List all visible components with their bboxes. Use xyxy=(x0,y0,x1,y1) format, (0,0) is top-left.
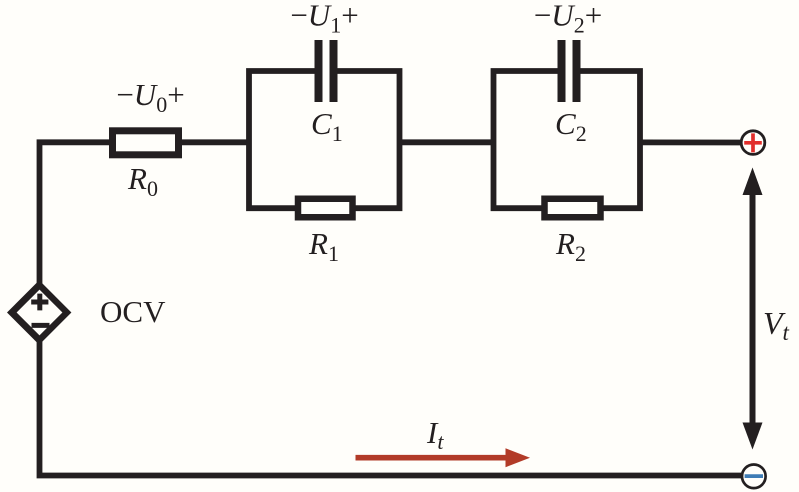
resistor R0 xyxy=(113,131,179,155)
wire: RC group 2 to positive terminal xyxy=(640,139,742,145)
wire: RC group 1 to RC group 2 xyxy=(400,139,495,145)
svg-text:R0: R0 xyxy=(127,161,158,201)
svg-text:−U2+: −U2+ xyxy=(534,0,602,38)
svg-text:Vt: Vt xyxy=(763,305,790,345)
RC group 1 frame (parallel R1 C1 loop) xyxy=(249,71,400,208)
resistor R2 xyxy=(545,199,601,218)
negative terminal (blue minus in circle) xyxy=(742,465,766,489)
voltage source OCV (diamond) xyxy=(7,280,71,344)
minus sign inside OCV xyxy=(32,323,50,328)
capacitor C2 plates xyxy=(558,40,566,102)
plus sign inside OCV xyxy=(31,294,48,311)
svg-text:It: It xyxy=(426,415,444,454)
wire: R0 to first RC group xyxy=(182,139,251,145)
capacitor C1 plates xyxy=(315,40,323,102)
svg-text:C2: C2 xyxy=(555,106,587,146)
svg-text:R1: R1 xyxy=(308,226,339,266)
svg-text:−U1+: −U1+ xyxy=(290,0,358,38)
svg-text:OCV: OCV xyxy=(100,294,166,329)
svg-text:−U0+: −U0+ xyxy=(116,77,184,117)
svg-text:R2: R2 xyxy=(555,226,586,266)
current arrow It (red) xyxy=(356,455,508,461)
RC group 2 frame (parallel R2 C2 loop) xyxy=(494,71,641,208)
positive terminal (red plus in circle) xyxy=(741,131,765,155)
svg-text:C1: C1 xyxy=(311,106,343,146)
resistor R1 xyxy=(298,199,353,218)
wire: top-left rail from R0 to left corner and down to OCV top xyxy=(40,142,110,288)
voltage arrow Vt (double-headed) xyxy=(750,192,756,425)
wire: left vertical below OCV, bottom rail to negative terminal xyxy=(40,337,743,476)
